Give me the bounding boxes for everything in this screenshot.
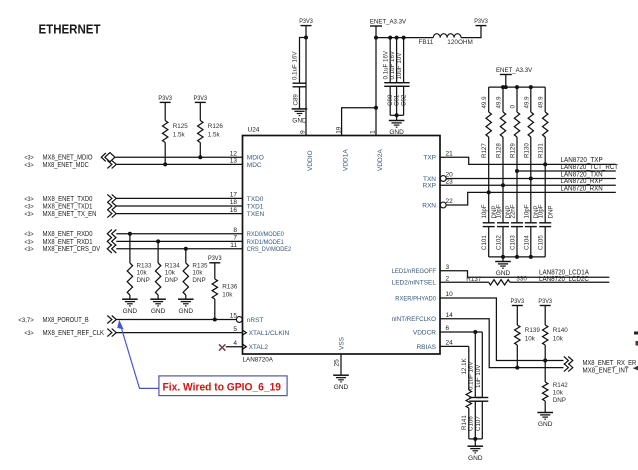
U24 pin 19 VDD1A (335, 126, 349, 171)
resistor R128 49.9 (496, 87, 506, 223)
wire MX8_ENET_MDC to U24 (116, 163, 242, 165)
U24 pin 1 VDD2A (370, 130, 384, 171)
svg-text:<3>: <3> (24, 155, 34, 162)
node MX8_ENET_RXD0 port and label (24, 230, 116, 239)
wire MX8_ENET_CRS_DV to U24 (116, 248, 242, 250)
svg-text:C107: C107 (475, 416, 482, 431)
wire R141/C106/C107 bus (469, 438, 483, 440)
svg-text:C102: C102 (496, 235, 503, 250)
svg-text:4: 4 (233, 340, 237, 347)
svg-text:VDDIO: VDDIO (307, 150, 314, 171)
wire cap bank bus to ground (489, 256, 546, 258)
wire ENET_A3.3V stem (505, 75, 507, 88)
svg-text:R127: R127 (481, 143, 488, 158)
svg-text:RBIAS: RBIAS (416, 344, 436, 351)
resistor R125 1.5k (163, 102, 189, 164)
svg-text:P3V3: P3V3 (208, 255, 222, 262)
U24 pin 22 RXN (422, 198, 453, 209)
svg-text:R128: R128 (496, 143, 503, 158)
ground (C90-C92) (389, 121, 405, 137)
junction R139/MX8_ENET_INT (515, 366, 519, 370)
svg-text:R133: R133 (137, 262, 153, 269)
svg-text:nRST: nRST (247, 317, 264, 324)
svg-text:GND: GND (389, 129, 404, 136)
node MX8_ENET_RXD1 port and label (24, 237, 116, 246)
svg-text:17: 17 (230, 192, 238, 199)
svg-text:GND: GND (468, 455, 483, 462)
svg-text:MX8_ENET_RX_ER: MX8_ENET_RX_ER (583, 360, 637, 367)
annotation box: Fix. Wired to GPIO_6_19 (159, 376, 287, 396)
junction R127/RXN (487, 190, 491, 194)
svg-text:22: 22 (446, 198, 454, 205)
svg-text:C89: C89 (293, 94, 300, 106)
resistor R136 10k (212, 263, 238, 320)
wire P3V3 to VDDIO pin 9 (305, 26, 307, 136)
U24 pin 14 nINT/REFCLKO (392, 312, 454, 323)
wire MX8_POROUT_B to U24 (116, 319, 236, 321)
ground (below R133) (122, 299, 138, 315)
svg-text:R136: R136 (222, 284, 238, 291)
svg-text:MX8_ENET_REF_CLK: MX8_ENET_REF_CLK (43, 330, 105, 337)
resistor R142 10k DNP (543, 382, 569, 413)
capacitor C105 10pF DNP (538, 204, 555, 257)
clipped mark right edge (634, 332, 638, 335)
svg-text:16: 16 (230, 207, 238, 214)
no-connect X on XTAL2 (219, 344, 225, 350)
svg-text:MX8_ENET_MDC: MX8_ENET_MDC (43, 162, 89, 169)
U24 pin 9 VDDIO (300, 130, 314, 171)
U24 pin 8 RXD0/MODE0 (233, 227, 284, 238)
svg-text:49.9: 49.9 (481, 96, 488, 109)
svg-text:P3V3: P3V3 (194, 95, 208, 102)
svg-text:GND: GND (292, 118, 307, 125)
capacitor C89 0.1uF 16V (292, 38, 307, 109)
junction cap bank tap (374, 36, 378, 40)
svg-text:RXD0/MODE0: RXD0/MODE0 (247, 231, 284, 238)
svg-text:P3V3: P3V3 (511, 298, 525, 305)
junction C89 tap (304, 36, 308, 40)
svg-text:MDC: MDC (247, 162, 262, 169)
svg-text:DNP: DNP (192, 277, 205, 284)
junction R140/MX8_ENET_RX_ER (543, 359, 547, 363)
ground (C89) (292, 109, 308, 125)
svg-text:DNP: DNP (165, 277, 178, 284)
P3V3 power symbol (R139) (511, 298, 525, 306)
svg-text:C103: C103 (510, 235, 517, 250)
svg-text:12.1K: 12.1K (461, 357, 468, 374)
svg-text:LAN8720_TXP: LAN8720_TXP (561, 157, 603, 164)
svg-text:1.5k: 1.5k (208, 132, 221, 139)
capacitor C103 22nF (510, 204, 524, 257)
svg-text:24: 24 (446, 340, 454, 347)
ground (R141/C106/C107) (468, 446, 484, 462)
P3V3 power symbol (R126) (194, 95, 208, 103)
U24 pin 21 TXP (423, 150, 453, 161)
P3V3 power symbol (VDDIO) (299, 18, 313, 26)
svg-text:RXER/PHYAD0: RXER/PHYAD0 (395, 295, 436, 302)
svg-text:R130: R130 (523, 143, 530, 158)
annotation arrow to nRST (117, 320, 159, 389)
junction C92 (402, 36, 406, 40)
junction C106 (473, 330, 477, 334)
U24 pin 24 RBIAS (416, 340, 453, 351)
U24 pin 2 LED2/nINTSEL (392, 276, 450, 287)
resistor R137 330 (LED2 series) (440, 276, 609, 285)
P3V3 power symbol (FB11) (474, 18, 488, 26)
wire VDDCR pin 6 (440, 331, 482, 333)
svg-text:ENET_A3.3V: ENET_A3.3V (496, 67, 533, 74)
ENET_A3.3V power symbol (top) (370, 18, 407, 26)
svg-text:10k: 10k (553, 336, 564, 343)
junction R126/MX8_ENET_MDIO (198, 155, 202, 159)
resistor R141 12.1K (461, 346, 471, 439)
junction C91 (395, 36, 399, 40)
junction R131/TXP (543, 162, 547, 166)
svg-text:nINT/REFCLKO: nINT/REFCLKO (392, 316, 436, 323)
port MX8_ENET_INT (564, 364, 629, 375)
junction rail (515, 85, 519, 89)
svg-text:10k: 10k (222, 291, 233, 298)
svg-text:11: 11 (230, 242, 237, 249)
resistor R129 0 (510, 87, 520, 223)
wire MX8_ENET_RXD1 to U24 (116, 240, 242, 242)
svg-text:RXN: RXN (422, 202, 436, 209)
node MX8_ENET_MDC port and label (24, 160, 116, 168)
wire cap bank to ground (390, 114, 403, 116)
svg-text:MX8_ENET_TXD1: MX8_ENET_TXD1 (43, 203, 93, 210)
svg-text:P3V3: P3V3 (474, 18, 488, 25)
svg-text:<3>: <3> (24, 231, 34, 238)
junction R125/MX8_ENET_MDC (163, 162, 167, 166)
svg-text:3: 3 (446, 264, 450, 271)
svg-text:MX8_ENET_RXD0: MX8_ENET_RXD0 (43, 231, 93, 238)
wire termination rail (489, 86, 546, 88)
svg-text:GND: GND (538, 421, 553, 428)
svg-text:10pF: 10pF (481, 204, 488, 218)
capacitor C104 10pF DNP (523, 204, 540, 257)
U24 pin 25 VSS (334, 336, 346, 366)
svg-text:25: 25 (334, 359, 341, 367)
svg-text:<3,7>: <3,7> (18, 317, 34, 324)
svg-text:TXD1: TXD1 (247, 203, 264, 210)
svg-text:VDD2A: VDD2A (377, 149, 384, 171)
U24 pin 3 LED1/nREGOFF (392, 264, 450, 275)
IC U24 LAN8720A Ethernet PHY body (243, 136, 441, 355)
wire MX8_ENET_TXD1 to U24 (116, 205, 242, 207)
svg-text:R135: R135 (192, 262, 208, 269)
svg-text:MX8_ENET_MDIO: MX8_ENET_MDIO (43, 155, 93, 162)
wire LED1 pin 3 to LAN8720_LCD1A (440, 271, 609, 278)
svg-text:RXD1/MODE1: RXD1/MODE1 (247, 239, 284, 246)
U24 pin 13 MDC (230, 158, 262, 169)
svg-text:10k: 10k (137, 270, 148, 277)
node MX8_ENET_TX_EN port and label (24, 210, 116, 218)
U24 pin 5 XTAL1/CLKIN (233, 326, 289, 337)
wire MX8_ENET_RXD0 to U24 (116, 233, 242, 235)
svg-text:5: 5 (233, 326, 237, 333)
junction R128/RXP (501, 183, 505, 187)
clipped arrow right edge (633, 366, 638, 371)
wire RXN pin 22 to LAN8720_RXN (446, 192, 616, 205)
svg-text:LED1/nREGOFF: LED1/nREGOFF (392, 268, 436, 275)
U24 pin 7 RXD1/MODE1 (233, 235, 284, 246)
svg-text:330: 330 (516, 276, 527, 283)
junction VDD1A/ENET rail (374, 106, 378, 110)
node MX8_ENET_TXD1 port and label (24, 202, 116, 210)
U24 pin 12 MDIO (230, 150, 264, 161)
wire RBIAS pin 24 (440, 345, 469, 347)
svg-text:10uF 10V: 10uF 10V (396, 52, 403, 80)
svg-text:49.9: 49.9 (538, 96, 545, 109)
junction R133 (128, 232, 132, 236)
wire MX8_ENET_TX_EN to U24 (116, 213, 242, 215)
svg-text:DNP: DNP (547, 205, 554, 218)
svg-text:R126: R126 (208, 123, 224, 130)
svg-text:C105: C105 (538, 235, 545, 250)
node MX8_ENET_CRS_DV port and label (24, 245, 116, 254)
svg-text:<3>: <3> (24, 196, 34, 203)
svg-text:C92: C92 (400, 94, 407, 106)
svg-text:10k: 10k (165, 270, 176, 277)
wire MX8_ENET_MDIO to U24 (115, 156, 242, 158)
svg-text:<3>: <3> (24, 239, 34, 246)
svg-text:1uF 10V: 1uF 10V (475, 364, 482, 388)
junction rail (501, 85, 505, 89)
svg-text:MX8_ENET_INT: MX8_ENET_INT (583, 367, 630, 374)
svg-text:10k: 10k (192, 270, 203, 277)
svg-text:<3>: <3> (24, 211, 34, 218)
junction bus (515, 255, 519, 259)
ground (below R134) (150, 299, 166, 315)
svg-text:49.9: 49.9 (523, 96, 530, 109)
capacitor C92 10uF 10V (396, 38, 410, 116)
svg-text:<3>: <3> (24, 203, 34, 210)
svg-text:<3>: <3> (24, 162, 34, 169)
junction R130/TXN (529, 177, 533, 181)
wire VDD1A pin 19 branch (342, 108, 376, 136)
svg-text:MX8_ENET_CRS_DV: MX8_ENET_CRS_DV (43, 246, 101, 253)
capacitor C102 10pF DNP (496, 204, 513, 257)
svg-text:TXEN: TXEN (247, 211, 265, 218)
svg-text:<3>: <3> (24, 246, 34, 253)
svg-text:1.5k: 1.5k (173, 132, 186, 139)
U24 pin 6 VDDCR (413, 325, 450, 336)
svg-text:7: 7 (233, 235, 237, 242)
svg-text:XTAL2: XTAL2 (249, 344, 269, 351)
wire VSS pin 25 (340, 354, 342, 375)
svg-text:LAN8720_RXP: LAN8720_RXP (561, 178, 603, 185)
svg-text:18: 18 (230, 199, 238, 206)
U24 pin 4 XTAL2 (233, 340, 268, 351)
svg-text:P3V3: P3V3 (158, 95, 172, 102)
svg-text:10pF: 10pF (496, 204, 503, 218)
resistor R139 10k (515, 306, 541, 368)
ground (below R135) (178, 299, 194, 315)
capacitor C91 0.1uF 16V (389, 38, 403, 116)
svg-text:10pF: 10pF (538, 204, 545, 218)
svg-text:10: 10 (446, 291, 454, 298)
capacitor C106 0.1uF 16V (468, 332, 482, 439)
svg-text:LAN8720_TCT_RCT: LAN8720_TCT_RCT (561, 164, 619, 171)
svg-text:R142: R142 (553, 382, 569, 389)
wire RXER pin 10 to MX8_ENET_RX_ER (440, 298, 564, 361)
node MX8_ENET_TXD0 port and label (24, 194, 116, 202)
port MX8_ENET_RX_ER (564, 357, 637, 368)
capacitor C107 1uF 10V (475, 332, 489, 439)
svg-text:R140: R140 (553, 327, 569, 334)
svg-text:MX8_ENET_TX_EN: MX8_ENET_TX_EN (43, 211, 97, 218)
junction R129/TCT (515, 169, 519, 173)
node MX8_ENET_REF_CLK port and label (24, 329, 116, 337)
junction bus (529, 255, 533, 259)
junction R134 (156, 239, 160, 243)
svg-text:R134: R134 (165, 262, 181, 269)
svg-text:LED2/nINTSEL: LED2/nINTSEL (392, 280, 437, 287)
svg-text:R125: R125 (173, 123, 189, 130)
svg-text:<3>: <3> (24, 330, 34, 337)
wire ENET_A3.3V to VDD2A pin 1 (375, 26, 377, 136)
resistor R130 49.9 (523, 87, 533, 223)
resistor R133 10k DNP (127, 234, 152, 300)
svg-text:Fix. Wired to GPIO_6_19: Fix. Wired to GPIO_6_19 (163, 381, 282, 393)
svg-text:VDDCR: VDDCR (413, 329, 436, 336)
svg-text:XTAL1/CLKIN: XTAL1/CLKIN (249, 330, 290, 337)
svg-text:CRS_DV/MODE2: CRS_DV/MODE2 (247, 246, 292, 253)
svg-text:MX8_POROUT_B: MX8_POROUT_B (43, 317, 89, 324)
svg-text:0.1uF 16V: 0.1uF 16V (389, 50, 396, 79)
junction R135 (184, 247, 188, 251)
svg-text:0.1uF 16V: 0.1uF 16V (292, 51, 299, 80)
svg-text:2: 2 (446, 276, 450, 283)
resistor R135 10k DNP (183, 249, 208, 299)
svg-text:TXD0: TXD0 (247, 196, 264, 203)
svg-text:LAN8720_LCD2C: LAN8720_LCD2C (539, 276, 589, 283)
svg-text:6: 6 (446, 325, 450, 332)
U24 pin 10 RXER/PHYAD0 (395, 291, 453, 302)
wire MX8_ENET_REF_CLK to U24 (116, 332, 242, 334)
U24 pin 18 TXD1 (230, 199, 264, 210)
svg-text:FB11: FB11 (419, 39, 434, 46)
svg-text:C101: C101 (481, 235, 488, 250)
svg-text:23: 23 (446, 178, 454, 185)
ENET_A3.3V power symbol (termination bank) (496, 67, 533, 75)
svg-text:DNP: DNP (137, 277, 150, 284)
svg-text:R137: R137 (466, 276, 482, 283)
svg-text:RXP: RXP (423, 183, 436, 190)
node MX8_POROUT_B port and label (18, 316, 116, 324)
svg-text:P3V3: P3V3 (299, 18, 313, 25)
svg-text:120OHM: 120OHM (447, 39, 473, 46)
node MX8_ENET_MDIO port and label (24, 153, 115, 162)
U24 pin 11 CRS_DV/MODE2 (230, 242, 291, 253)
capacitor C101 10pF DNP (481, 204, 498, 257)
svg-text:GND: GND (123, 308, 138, 315)
svg-text:8: 8 (233, 227, 237, 234)
svg-text:12: 12 (230, 150, 238, 157)
svg-text:R129: R129 (510, 143, 517, 158)
junction rail (529, 85, 533, 89)
svg-text:DNP: DNP (553, 397, 566, 404)
svg-text:10k: 10k (525, 336, 536, 343)
svg-text:14: 14 (446, 312, 454, 319)
svg-text:R139: R139 (525, 327, 541, 334)
svg-text:LAN8720A: LAN8720A (243, 357, 274, 364)
svg-text:GND: GND (151, 308, 166, 315)
capacitor C90 0.1uF 16V (383, 38, 397, 116)
wire XTAL2 stub (226, 346, 243, 348)
U24 pin 20 TXN (423, 172, 453, 183)
svg-text:GND: GND (179, 308, 194, 315)
svg-text:VDD1A: VDD1A (342, 149, 349, 171)
svg-text:49.9: 49.9 (496, 96, 503, 109)
resistor R126 1.5k (198, 102, 224, 157)
U24 pin 16 TXEN (230, 207, 265, 218)
wire RXP pin 23 to LAN8720_RXP (440, 184, 616, 186)
svg-text:10k: 10k (553, 390, 564, 397)
svg-text:MX8_ENET_TXD0: MX8_ENET_TXD0 (43, 196, 93, 203)
junction rail stem (504, 85, 508, 89)
P3V3 power symbol (R136) (208, 255, 222, 263)
junction bus (501, 255, 505, 259)
resistor R131 49.9 (538, 87, 548, 223)
wire ENET_A3.3V to FB11 (376, 37, 433, 39)
wire LAN8720_TCT_RCT (517, 170, 616, 172)
wire MX8_ENET_TXD0 to U24 (116, 197, 242, 199)
svg-text:C104: C104 (523, 235, 530, 250)
svg-text:ETHERNET: ETHERNET (39, 22, 101, 37)
svg-text:R141: R141 (461, 415, 468, 430)
junction bus C106 (473, 437, 477, 441)
U24 pin 23 RXP (423, 178, 453, 189)
svg-text:ENET_A3.3V: ENET_A3.3V (370, 18, 407, 25)
junction R136/nRST (213, 318, 217, 322)
svg-text:22nF: 22nF (510, 204, 517, 218)
svg-text:R131: R131 (538, 143, 545, 158)
ground (R142) (537, 413, 553, 429)
resistor R134 10k DNP (155, 241, 180, 299)
svg-text:21: 21 (446, 150, 454, 157)
wire nINT pin 14 to MX8_ENET_INT (440, 319, 564, 368)
svg-text:MDIO: MDIO (247, 155, 264, 162)
resistor R140 10k (543, 306, 569, 383)
svg-text:10pF: 10pF (523, 204, 530, 218)
U24 pin 15 nRST (230, 313, 264, 324)
wire TXN pin 20 to LAN8720_TXN (446, 178, 616, 180)
P3V3 power symbol (R140) (538, 298, 552, 306)
svg-text:LAN8720_RXN: LAN8720_RXN (561, 185, 603, 192)
svg-text:0: 0 (510, 105, 517, 109)
svg-text:MX8_ENET_RXD1: MX8_ENET_RXD1 (43, 239, 93, 246)
svg-text:VSS: VSS (339, 336, 346, 350)
svg-text:GND: GND (496, 270, 511, 277)
ground (C101-C105) (495, 262, 511, 278)
ground (VSS) (333, 375, 349, 391)
svg-text:P3V3: P3V3 (538, 298, 552, 305)
svg-text:C91: C91 (393, 94, 400, 106)
svg-text:13: 13 (230, 158, 238, 165)
svg-text:U24: U24 (248, 127, 260, 134)
P3V3 power symbol (R125) (158, 95, 172, 103)
U24 pin 17 TXD0 (230, 192, 264, 203)
svg-text:GND: GND (334, 384, 349, 391)
resistor R127 49.9 (481, 87, 491, 223)
wire FB11 to P3V3 (461, 26, 481, 38)
wire TXP pin 21 to LAN8720_TXP (440, 157, 616, 164)
junction C90 (388, 36, 392, 40)
inductor FB11 120OHM (419, 34, 473, 47)
svg-text:TXP: TXP (423, 155, 436, 162)
